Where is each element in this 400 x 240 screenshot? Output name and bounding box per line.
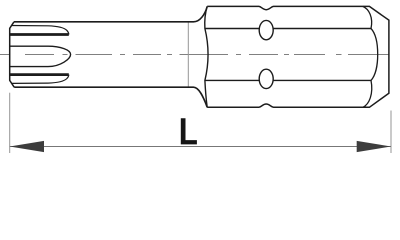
bottom flute thick line — [10, 73, 69, 76]
extension line right — [390, 111, 392, 154]
top flute thick line — [10, 33, 69, 36]
right chamfer arc bottom flat — [363, 80, 372, 107]
right chamfer arc front face — [371, 29, 378, 81]
shaft end gray line — [187, 22, 189, 87]
cone boundary curve — [205, 6, 208, 107]
dimension line — [10, 146, 391, 148]
hex inner line bottom — [205, 79, 371, 81]
detent ellipse bottom — [259, 69, 273, 88]
middle flute — [10, 46, 71, 66]
arrow left — [10, 141, 44, 152]
shaft bottom edge with fillet into hex — [14, 87, 207, 107]
hex inner line top — [205, 28, 371, 30]
hex outline with groove notches — [207, 6, 389, 107]
shaft top edge with fillet into hex — [14, 6, 207, 21]
detent ellipse top — [259, 20, 273, 39]
tip outline (left face and chamfers) — [10, 22, 15, 87]
right chamfer arc top flat — [363, 6, 372, 28]
extension line left — [9, 93, 11, 153]
top flute — [12, 26, 69, 35]
centerline — [0, 54, 389, 56]
bottom flute — [12, 75, 69, 84]
arrow right — [357, 141, 391, 152]
dimension label L — [181, 118, 197, 144]
